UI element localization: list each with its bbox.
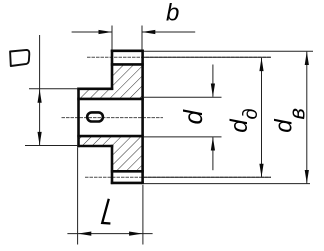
D arrow down <box>38 132 42 146</box>
d_d extension top (pitch) <box>144 56 271 58</box>
pitch line bottom <box>85 176 271 178</box>
root edge top <box>111 63 144 66</box>
d_d dimension line <box>261 58 263 177</box>
L arrow right (points right) <box>129 232 143 236</box>
hatched web upper section <box>79 64 143 99</box>
svg-text:b: b <box>166 0 179 27</box>
d dimension line <box>212 65 214 97</box>
tip edge top <box>111 49 144 52</box>
D dimension line <box>39 35 41 145</box>
hub top edge <box>77 88 113 91</box>
d_v arrow down <box>305 170 309 184</box>
d_d arrow down <box>259 164 263 178</box>
rim left edge upper <box>111 50 114 90</box>
label D <box>10 50 29 66</box>
D extension top <box>29 88 78 90</box>
rim left edge lower <box>111 145 114 184</box>
L arrow left (points left) <box>78 232 92 236</box>
L dimension line <box>67 233 152 235</box>
d extension top <box>144 96 222 98</box>
d_v dimension line <box>306 52 308 184</box>
b arrow right (points left) <box>142 30 156 34</box>
b extension right <box>141 26 143 50</box>
centerline axis <box>62 117 164 119</box>
thin extension and dimension lines <box>25 26 313 245</box>
d_d arrow up <box>259 58 263 72</box>
D extension bottom <box>25 145 78 147</box>
keyway slot <box>87 112 103 121</box>
L extension right <box>142 185 144 245</box>
hub left edge <box>77 88 80 148</box>
label L <box>102 199 110 224</box>
root edge bottom <box>111 170 144 173</box>
d arrow down (top segment) <box>211 84 215 98</box>
hub bottom edge <box>77 145 113 148</box>
pitch line top <box>87 56 271 58</box>
d_v arrow up <box>305 52 309 66</box>
rim outline <box>77 50 144 185</box>
d_v extension bottom <box>144 183 310 185</box>
d arrow up (bottom segment) <box>211 137 215 151</box>
d_v extension top <box>144 50 313 52</box>
D arrow up <box>38 89 42 103</box>
bore bottom edge <box>77 135 144 138</box>
b arrow left (points right) <box>99 30 113 34</box>
label d <box>178 109 208 125</box>
label d_v <box>271 108 310 133</box>
b extension left <box>111 26 113 50</box>
arrowheads <box>38 30 309 236</box>
tip edge bottom <box>111 182 144 185</box>
hatched web lower section <box>79 136 143 171</box>
bore top edge <box>77 98 144 101</box>
L extension left <box>77 148 79 245</box>
rim right edge <box>141 50 144 185</box>
svg-text:d: d <box>178 109 208 125</box>
b dimension line <box>72 31 112 33</box>
d_d extension bottom (pitch) <box>144 176 271 178</box>
label d_d <box>226 108 262 132</box>
d extension bottom <box>144 136 222 138</box>
